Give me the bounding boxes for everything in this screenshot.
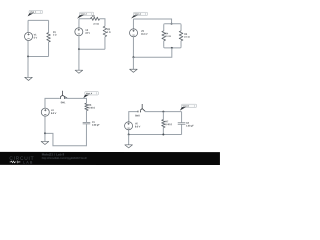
wire left upper 3: [132, 19, 134, 29]
wire bottom 5: [129, 134, 182, 136]
junction node 3 bottom: [171, 47, 173, 49]
ground 4: [41, 141, 49, 144]
svg-text:0.40 Ω: 0.40 Ω: [88, 107, 95, 109]
svg-text:http://circuitlab.com/c/pg4956: http://circuitlab.com/c/pg4956f673xc4/: [42, 156, 87, 160]
wire R7 branch lower: [162, 128, 164, 135]
svg-text:1 Ω: 1 Ω: [53, 35, 57, 37]
ground 1: [25, 77, 33, 80]
wire left branch upper 3: [163, 25, 165, 31]
svg-text:2.4 Ω: 2.4 Ω: [93, 24, 99, 26]
wire left lower 5: [128, 130, 130, 135]
wire left lower 4: [44, 116, 46, 133]
svg-text:9.0 V: 9.0 V: [51, 113, 57, 115]
flag Vout_2: [77, 12, 94, 19]
junction node 2: [78, 48, 80, 50]
wire right branch lower 3: [180, 41, 182, 47]
junction node 5 top: [162, 111, 164, 113]
wire top right 2: [100, 19, 105, 26]
wire right branch upper 3: [180, 25, 182, 31]
svg-text:2.4 Ω: 2.4 Ω: [165, 36, 171, 38]
junction node 4: [44, 132, 46, 134]
junction node R7 bottom: [162, 134, 164, 136]
wire stub + bottom 3: [133, 48, 171, 57]
wire top left 5: [129, 112, 138, 122]
voltage source V1: [24, 32, 37, 40]
voltage source V2: [75, 28, 91, 36]
wire right lower 5: [181, 125, 183, 135]
wire right upper 5: [181, 112, 183, 123]
junction node 5 left: [128, 134, 130, 136]
wire top right 5: [145, 111, 182, 113]
svg-text:Matej21 / Lab 8: Matej21 / Lab 8: [42, 153, 65, 157]
wire left branch lower 3: [163, 41, 165, 47]
resistor R6: [85, 103, 96, 111]
capacitor C1: [83, 122, 101, 127]
wire left lower 3: [132, 37, 134, 57]
wire bottom 1: [28, 56, 48, 58]
wire right lower 1: [48, 42, 50, 56]
voltage source V4: [41, 108, 56, 116]
ground 5: [125, 145, 133, 148]
wire R7 branch upper: [162, 112, 164, 120]
wire top 1: [28, 19, 48, 21]
svg-text:24 V: 24 V: [85, 33, 90, 35]
wire ground stub 2: [78, 49, 80, 70]
wire bottom 2: [79, 48, 105, 50]
resistor R4: [162, 31, 171, 41]
flag Vout_1: [28, 10, 43, 16]
voltage source V5: [125, 122, 141, 130]
ground 2: [75, 70, 83, 73]
flag Vout_3: [131, 12, 148, 18]
wire top 3: [133, 19, 171, 24]
wire bottom right 4: [45, 124, 87, 146]
svg-text:Vout_3: Vout_3: [135, 13, 141, 16]
resistor R5: [179, 31, 190, 41]
resistor R1: [47, 32, 57, 42]
voltage source V3: [130, 29, 149, 37]
wire mid 4: [85, 111, 87, 122]
wire ground stub 4: [44, 133, 46, 141]
wire right lower 2: [104, 37, 106, 50]
svg-text:1.00 µF: 1.00 µF: [92, 125, 100, 127]
junction node 3 left: [132, 56, 134, 58]
wire top left 2: [79, 18, 91, 20]
switch SW1: [60, 91, 67, 105]
flag Vout_4: [83, 91, 98, 98]
flag Vout_5: [180, 104, 197, 111]
svg-text:4 Ω: 4 Ω: [107, 32, 111, 34]
resistor R2: [91, 16, 100, 26]
svg-text:LAB: LAB: [23, 161, 33, 165]
svg-text:9.0 V: 9.0 V: [135, 126, 141, 128]
wire ground stub 5: [128, 135, 130, 145]
wire ground stub 3: [132, 57, 134, 69]
svg-text:SW1: SW1: [61, 102, 67, 104]
wire parallel box top: [165, 23, 180, 25]
junction node 1: [27, 56, 29, 58]
wire left lower 2: [78, 36, 80, 49]
wire left upper 1: [27, 20, 29, 32]
wire parallel box bottom: [164, 47, 181, 48]
wire left upper 2: [78, 19, 80, 28]
switch SW2: [135, 104, 145, 117]
svg-text:16.0 V: 16.0 V: [141, 34, 148, 36]
svg-text:Vout_4: Vout_4: [86, 92, 93, 95]
wire top right 4: [65, 98, 87, 103]
wire left lower 1: [27, 41, 29, 57]
svg-text:1.00 µF: 1.00 µF: [186, 125, 194, 127]
svg-text:Vout_1: Vout_1: [30, 11, 36, 14]
svg-text:2.4 Ω: 2.4 Ω: [184, 37, 190, 39]
svg-text:0.40 Ω: 0.40 Ω: [165, 124, 172, 126]
wire ground stub 1: [27, 57, 29, 78]
capacitor C2: [178, 123, 195, 128]
wire right upper 1: [48, 20, 50, 32]
resistor R7: [162, 120, 173, 128]
svg-text:SW2: SW2: [135, 115, 141, 117]
wire top left 4: [45, 98, 60, 108]
junction node 3 top: [171, 23, 173, 25]
svg-text:5 V: 5 V: [34, 38, 38, 40]
resistor R3: [103, 26, 111, 37]
ground 3: [130, 69, 138, 72]
